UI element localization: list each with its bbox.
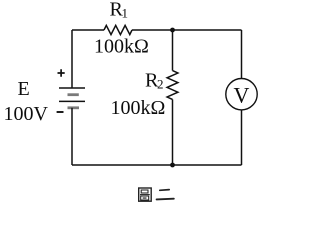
圖 inner bottom 回 outer xyxy=(141,196,149,200)
svg-text:V: V xyxy=(234,82,250,107)
label: + (battery positive) xyxy=(58,69,65,77)
battery E: second long plate xyxy=(59,100,85,102)
battery E: first short plate xyxy=(68,93,79,96)
svg-text:100V: 100V xyxy=(4,103,49,125)
二 top stroke xyxy=(160,189,169,192)
node: bottom junction xyxy=(170,163,175,168)
圖 middle horizontal stroke xyxy=(140,194,150,196)
wire: left branch upper (to battery top plate) xyxy=(71,30,73,88)
caption: 圖二 (Figure 2) xyxy=(139,188,174,201)
battery E: bottom short plate xyxy=(68,106,80,109)
label: - (battery negative) xyxy=(57,111,64,113)
svg-text:100kΩ: 100kΩ xyxy=(94,36,149,58)
wire: right branch upper xyxy=(241,30,243,78)
svg-text:E: E xyxy=(18,78,30,100)
wire top-left: battery positive to R1 xyxy=(72,29,104,31)
wire: R2 upper lead xyxy=(172,30,174,71)
node: top junction xyxy=(170,28,175,33)
battery E: top long plate xyxy=(59,87,85,89)
圖 inner bottom 回 core xyxy=(143,197,147,198)
圖 outer box xyxy=(139,188,152,201)
resistor R2 (zigzag) xyxy=(167,71,178,100)
svg-text:R1: R1 xyxy=(110,0,129,21)
svg-text:100kΩ: 100kΩ xyxy=(111,97,166,119)
voltmeter V (circle body) xyxy=(226,79,257,110)
二 bottom stroke xyxy=(157,198,174,201)
wire: left branch lower (battery negative to bottom) xyxy=(71,108,73,165)
wire: right branch lower xyxy=(241,110,243,165)
wire: R2 lower lead xyxy=(172,99,174,165)
resistor R1 (zigzag) xyxy=(104,25,132,34)
wire top-right: R1 to top-right corner xyxy=(132,29,242,31)
svg-text:R2: R2 xyxy=(145,69,164,91)
圖 inner top 口 xyxy=(141,190,148,193)
wire: bottom rail xyxy=(72,164,242,166)
